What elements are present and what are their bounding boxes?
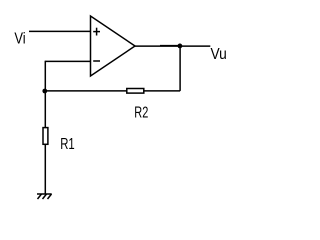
svg-text:R1: R1 <box>60 136 75 153</box>
svg-text:R2: R2 <box>134 105 148 122</box>
svg-text:Vi: Vi <box>14 30 25 47</box>
svg-text:Vu: Vu <box>211 46 227 63</box>
